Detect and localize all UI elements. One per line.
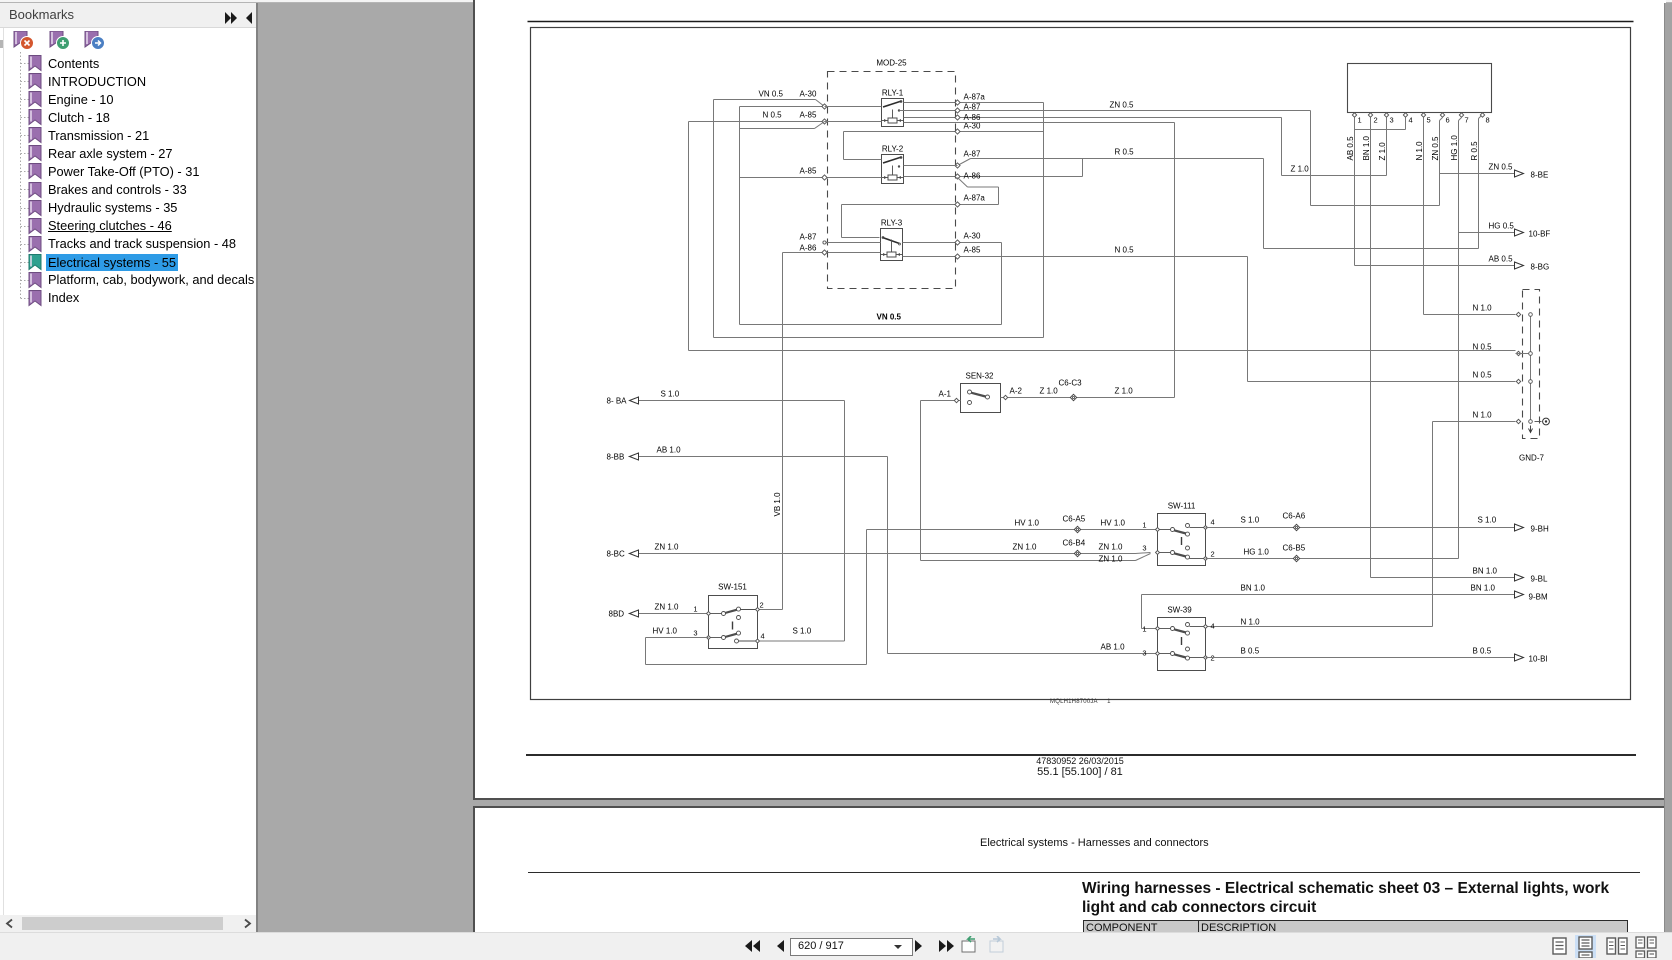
pin 8 of connector block [1482, 113, 1484, 115]
node A-1 [954, 398, 958, 402]
svg-text:C6-A6: C6-A6 [1283, 512, 1306, 521]
svg-text:Z 1.0: Z 1.0 [1378, 142, 1387, 161]
svg-text:8-BC: 8-BC [607, 550, 625, 559]
connector C6-B4 [1074, 550, 1080, 556]
pin 7 of connector block [1461, 113, 1463, 115]
wire RLY-1 coil N 0.5 lead to SEN-32 Z net [904, 122, 1175, 124]
svg-text:A-86: A-86 [964, 172, 981, 181]
wire VB 1.0 vertical to SW-151 pin 2 [782, 253, 784, 610]
wire pin 4 A-30 stub [1405, 118, 1407, 130]
wire RLY-1 A-87 output ZN 0.5 net [900, 110, 1311, 112]
svg-text:4: 4 [1211, 518, 1215, 527]
svg-text:BN 1.0: BN 1.0 [1362, 135, 1371, 160]
svg-text:BN 1.0: BN 1.0 [1471, 584, 1496, 593]
svg-text:4: 4 [1211, 622, 1215, 631]
wire RLY-2 switch feed from RLY-1 A-86/A-30 rail [843, 132, 845, 160]
pin 1 of connector block [1354, 113, 1356, 115]
wire ZN 0.5 tap to 8-BE [1440, 173, 1515, 175]
ground terminal symbol [1535, 421, 1542, 423]
sensor SEN-32 [961, 372, 1001, 413]
svg-text:A-1: A-1 [939, 390, 952, 399]
svg-text:9-BM: 9-BM [1529, 593, 1548, 602]
svg-text:N 0.5: N 0.5 [763, 111, 783, 120]
arrow 10-BF [1515, 229, 1524, 236]
svg-text:8-BG: 8-BG [1531, 263, 1550, 272]
svg-text:HV 1.0: HV 1.0 [1101, 519, 1126, 528]
wire pin 1 AB 0.5 drop to 8-BG [1354, 118, 1356, 266]
wire RLY-3 A-30 output to loop-C [903, 242, 1002, 244]
svg-text:HG 0.5: HG 0.5 [1489, 222, 1515, 231]
node GND N 1.0 bottom [1516, 419, 1520, 423]
pin 6 of connector block [1442, 113, 1444, 115]
svg-text:A-87a: A-87a [964, 194, 986, 203]
wire A-85 feed to RLY-2 coil [815, 122, 825, 129]
svg-text:9-BL: 9-BL [1531, 575, 1548, 584]
svg-text:N 1.0: N 1.0 [1415, 141, 1424, 161]
svg-text:HV 1.0: HV 1.0 [653, 627, 678, 636]
svg-text:ZN 1.0: ZN 1.0 [1099, 555, 1124, 564]
svg-text:VB 1.0: VB 1.0 [773, 492, 782, 517]
svg-text:A-85: A-85 [964, 246, 981, 255]
arrow 9-BM wire BN 1.0 [1142, 594, 1515, 596]
svg-text:ZN 1.0: ZN 1.0 [655, 603, 680, 612]
wire RLY-1 A-86 output Z 1.0 net [904, 117, 1282, 119]
switch SW-151 [709, 583, 758, 649]
svg-text:SW-111: SW-111 [1168, 502, 1196, 511]
svg-text:5: 5 [1427, 116, 1431, 125]
svg-text:BN 1.0: BN 1.0 [1473, 567, 1498, 576]
wire RLY-1 A-30 return rail [844, 131, 1044, 133]
wire RLY-3 A-87 pin [823, 241, 826, 244]
svg-text:A-2: A-2 [1010, 387, 1023, 396]
wire loop-A: N 0.5 rail down to GND-7 N 0.5 [688, 122, 690, 351]
node A-2 [1003, 395, 1007, 399]
pin 2 of connector block [1370, 113, 1372, 115]
svg-text:C6-A5: C6-A5 [1063, 515, 1086, 524]
harness arrow 8-BB with AB 1.0 wire [629, 456, 888, 458]
svg-text:3: 3 [1142, 544, 1146, 553]
svg-text:A-87: A-87 [964, 150, 981, 159]
node A-86 RLY-1 [955, 115, 960, 120]
connector C6-A6 [1293, 524, 1299, 530]
connector C6-A5 [1074, 526, 1080, 532]
svg-text:HG 1.0: HG 1.0 [1450, 135, 1459, 161]
svg-text:ZN 0.5: ZN 0.5 [1431, 136, 1440, 161]
wire RLY-3 A-86 pin to VB 1.0 drop [783, 252, 881, 254]
relay RLY-2 [882, 145, 904, 184]
wire A-30 junction to RLY-1 switch pin [825, 106, 882, 108]
svg-text:C6-C3: C6-C3 [1059, 379, 1083, 388]
svg-text:S 1.0: S 1.0 [1241, 516, 1260, 525]
node A-87 RLY-1 [955, 108, 960, 113]
svg-text:Z 1.0: Z 1.0 [1115, 387, 1134, 396]
wire RLY-1 A-87a output [904, 102, 1044, 104]
harness arrow 8BD with ZN 1.0 wire to SW-151 [629, 613, 709, 615]
pin 3 of connector block [1386, 113, 1388, 115]
svg-text:SEN-32: SEN-32 [965, 372, 994, 381]
svg-text:ZN 1.0: ZN 1.0 [1013, 543, 1038, 552]
node A-30 RLY-3 [955, 240, 960, 245]
wire RLY-2 A-87 pin stub [904, 165, 958, 167]
wire N 0.5 net from RLY-3 A-85 to GND-7 [903, 256, 1248, 258]
svg-text:8BD: 8BD [609, 610, 625, 619]
node A-85 RLY-1 junction [822, 119, 827, 124]
connector block X1 [1348, 64, 1492, 113]
svg-text:8-BE: 8-BE [1531, 171, 1549, 180]
svg-text:C6-B4: C6-B4 [1063, 539, 1086, 548]
wire N 0.5 a into GND [1516, 353, 1529, 355]
svg-text:N 1.0: N 1.0 [1473, 304, 1493, 313]
page top rule [528, 21, 1634, 23]
wire Z 1.0 horizontal run [1282, 175, 1387, 177]
svg-text:1: 1 [1142, 625, 1146, 634]
wire SEN-32 A-1 to ZN 1.0 branch [921, 400, 961, 402]
arrow 9-BH [1515, 524, 1524, 531]
svg-text:VN 0.5: VN 0.5 [759, 90, 784, 99]
svg-text:8- BA: 8- BA [607, 397, 628, 406]
wire HV 1.0 from SW-151 pin 3 loop to SW-111 pin 1 [646, 637, 709, 639]
wire loop-C top segment into node A-30 [740, 106, 825, 108]
svg-text:HG 1.0: HG 1.0 [1244, 548, 1270, 557]
svg-text:A-85: A-85 [800, 111, 817, 120]
wire HG 0.5 tap to 10-BF [1459, 232, 1515, 234]
wire pin 6 ZN 0.5 drop to 8-BE [1440, 118, 1443, 121]
arrow 8-BE [1515, 170, 1524, 177]
svg-text:N 1.0: N 1.0 [1473, 411, 1493, 420]
switch SW-111 [1158, 502, 1206, 566]
svg-text:SW-39: SW-39 [1167, 606, 1192, 615]
node A-30 RLY-1 right [955, 129, 960, 134]
svg-text:ZN 0.5: ZN 0.5 [1489, 163, 1514, 172]
svg-text:ZN 1.0: ZN 1.0 [655, 543, 680, 552]
svg-text:R 0.5: R 0.5 [1115, 148, 1135, 157]
svg-text:AB 1.0: AB 1.0 [657, 446, 682, 455]
node A-87 RLY-2 [955, 163, 960, 168]
wire GND-7 internal bus [1530, 315, 1532, 422]
relay RLY-1 [882, 89, 904, 127]
wire S 1.0 from SW-111 pin 4 to 9-BH [1206, 527, 1515, 529]
ground block GND-7 dashed enclosure [1523, 290, 1540, 439]
svg-text:S 1.0: S 1.0 [1478, 516, 1497, 525]
svg-text:N 0.5: N 0.5 [1473, 343, 1493, 352]
wire loop-C: RLY-3 A-30 to RLY-1 A-30 path [739, 107, 741, 325]
svg-text:B 0.5: B 0.5 [1473, 647, 1492, 656]
svg-text:1: 1 [693, 605, 697, 614]
svg-text:9-BH: 9-BH [1531, 525, 1549, 534]
node A-87a RLY-2 [955, 202, 960, 207]
svg-text:RLY-1: RLY-1 [882, 89, 904, 98]
svg-text:BN 1.0: BN 1.0 [1241, 584, 1266, 593]
svg-text:ZN 0.5: ZN 0.5 [1110, 101, 1135, 110]
svg-text:HV 1.0: HV 1.0 [1015, 519, 1040, 528]
wire pin 2 BN 1.0 drop to 9-BL [1370, 118, 1372, 578]
wire pin 7 HG 1.0 drop to SW-111 and 10-BF tap [1459, 118, 1462, 121]
svg-text:AB 0.5: AB 0.5 [1346, 136, 1355, 161]
svg-text:A-87a: A-87a [964, 93, 986, 102]
svg-text:Z 1.0: Z 1.0 [1040, 387, 1059, 396]
svg-text:SW-151: SW-151 [718, 583, 747, 592]
svg-text:2: 2 [1374, 116, 1378, 125]
svg-text:4: 4 [1409, 116, 1413, 125]
wire R 0.5 from RLY-2 A-87 to connector pin 8 [958, 159, 971, 166]
svg-text:3: 3 [1390, 116, 1394, 125]
svg-text:RLY-3: RLY-3 [881, 219, 903, 228]
wire VN 0.5 top feed to RLY-1 A-30 [714, 99, 816, 101]
wire pin 3 Z 1.0 drop [1386, 118, 1388, 176]
svg-text:C6-B5: C6-B5 [1283, 544, 1306, 553]
wire pin 5 N 1.0 drop to GND-7 [1423, 118, 1425, 315]
svg-text:N 1.0: N 1.0 [1241, 618, 1261, 627]
node A-85 RLY-2 junction [822, 175, 827, 180]
svg-text:GND-7: GND-7 [1519, 454, 1544, 463]
arrow 9-BL [1515, 574, 1524, 581]
wire A-85 junction to RLY-1 coil pin [825, 121, 882, 123]
node GND N 0.5 b [1516, 379, 1520, 383]
svg-text:RLY-2: RLY-2 [882, 145, 904, 154]
svg-text:2: 2 [1211, 550, 1215, 559]
connector C6-C3 [1070, 394, 1076, 400]
svg-text:R 0.5: R 0.5 [1470, 141, 1479, 161]
svg-text:1: 1 [1142, 521, 1146, 530]
pin 4 of connector block [1405, 113, 1407, 115]
ground arrow marker [1529, 426, 1533, 433]
svg-text:A-87: A-87 [964, 103, 981, 112]
svg-text:VN 0.5: VN 0.5 [877, 313, 902, 322]
connector C6-B5 [1293, 555, 1299, 561]
svg-text:Z 1.0: Z 1.0 [1291, 165, 1310, 174]
svg-text:S 1.0: S 1.0 [793, 627, 812, 636]
svg-text:AB 1.0: AB 1.0 [1101, 643, 1126, 652]
arrow 8-BG [1515, 262, 1524, 269]
harness arrow 8-BA with S 1.0 wire [639, 400, 845, 402]
svg-text:A-86: A-86 [800, 244, 817, 253]
svg-text:6: 6 [1446, 116, 1450, 125]
svg-text:S 1.0: S 1.0 [661, 390, 680, 399]
node A-86 RLY-3 [822, 250, 827, 255]
svg-text:2: 2 [760, 601, 764, 610]
wire N 0.5 feed to RLY-1 A-85 [689, 121, 825, 123]
svg-text:10-BF: 10-BF [1529, 230, 1551, 239]
wire SEN-32 A-2 Z 1.0 output [1001, 397, 1175, 399]
wire N 1.0 bottom from SW-39 pin 4 [1433, 421, 1516, 423]
svg-text:7: 7 [1465, 116, 1469, 125]
wire RLY-2 A-86 output [904, 176, 1083, 178]
svg-text:8: 8 [1486, 116, 1490, 125]
node GND N 1.0 top [1516, 312, 1520, 316]
node A-86 RLY-2 [955, 174, 960, 179]
svg-text:MOD-25: MOD-25 [876, 59, 907, 68]
wire HG 1.0 from SW-111 pin 2 [1206, 558, 1459, 560]
wire loop-B: VN 0.5 return path around MOD-25 [713, 100, 715, 338]
svg-text:3: 3 [693, 629, 697, 638]
svg-text:4: 4 [761, 632, 765, 641]
svg-text:N 0.5: N 0.5 [1115, 246, 1135, 255]
svg-text:10-BI: 10-BI [1529, 655, 1548, 664]
svg-text:A-30: A-30 [800, 90, 817, 99]
svg-text:8-BB: 8-BB [607, 453, 625, 462]
svg-text:3: 3 [1142, 649, 1146, 658]
svg-text:A-30: A-30 [964, 232, 981, 241]
module MOD-25 dashed enclosure [828, 72, 956, 289]
pin 5 of connector block [1423, 113, 1425, 115]
svg-text:AB 0.5: AB 0.5 [1489, 255, 1514, 264]
node GND N 0.5 a [1516, 351, 1520, 355]
node A-87a RLY-1 [955, 100, 960, 105]
node A-30 RLY-1 junction [822, 104, 827, 109]
switch SW-39 [1158, 606, 1206, 671]
svg-text:A-85: A-85 [800, 167, 817, 176]
relay RLY-3 [881, 219, 903, 261]
svg-text:1: 1 [1358, 116, 1362, 125]
node A-85 RLY-3 [955, 254, 960, 259]
svg-text:B 0.5: B 0.5 [1241, 647, 1260, 656]
wire RLY-2 A-87a flag and RLY-3 switch feed [958, 178, 968, 188]
svg-text:A-87: A-87 [800, 233, 817, 242]
harness arrow 8-BC with ZN 1.0 wire [629, 553, 1136, 555]
svg-text:N 0.5: N 0.5 [1473, 371, 1493, 380]
svg-text:ZN 1.0: ZN 1.0 [1099, 543, 1124, 552]
arrow 10-BI [1515, 654, 1524, 661]
wire B 0.5 from SW-39 pin 2 to 10-BI [1206, 657, 1515, 659]
